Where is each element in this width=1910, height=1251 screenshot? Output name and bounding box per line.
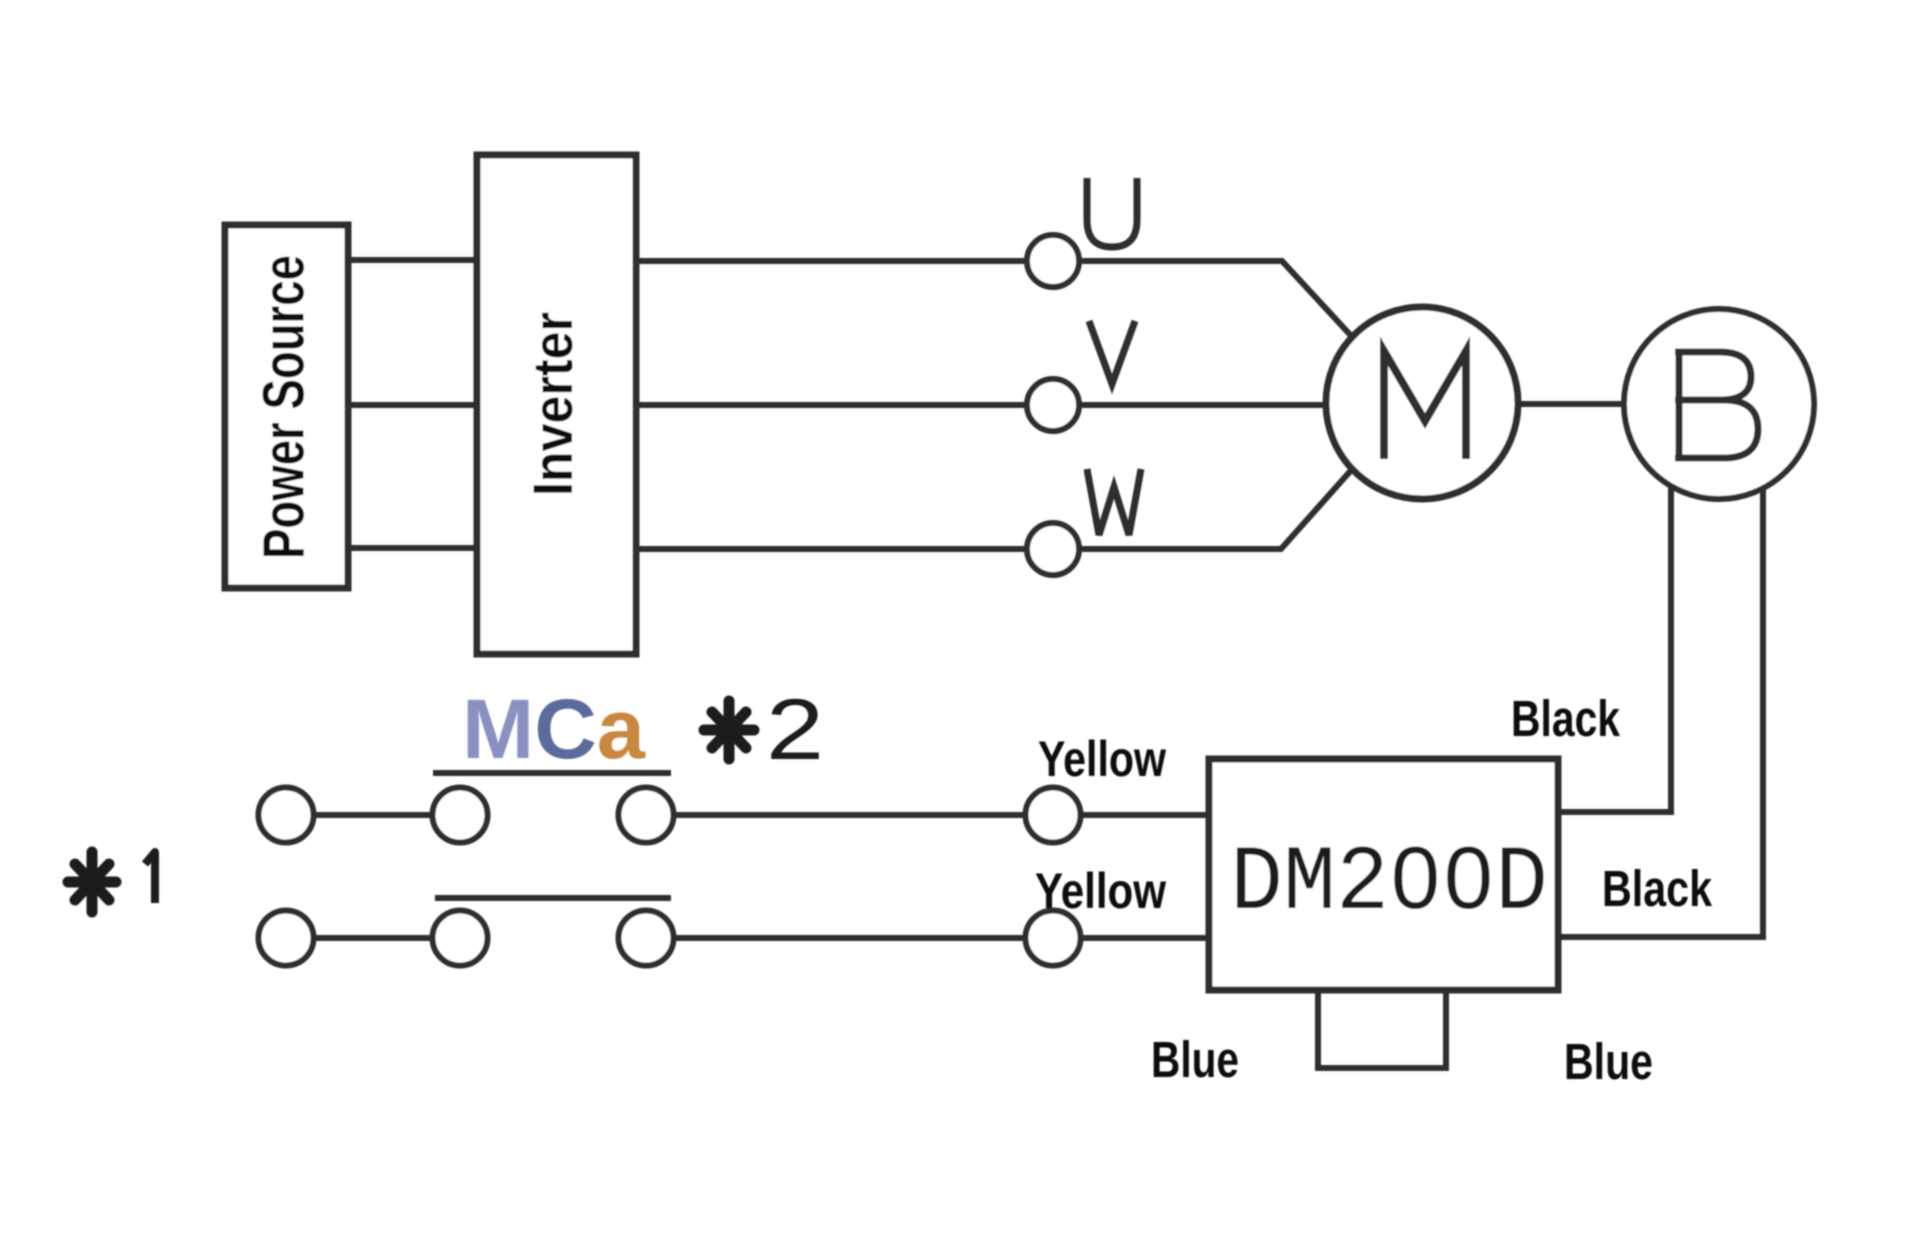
wire yellow2 to DM200D <box>1082 935 1209 941</box>
brake letter B <box>1675 352 1758 458</box>
terminal W <box>1027 523 1079 575</box>
wire U <box>636 258 1026 264</box>
motor M circle <box>1326 307 1518 499</box>
svg-text:Blue: Blue <box>1151 1031 1239 1088</box>
row1 terminal c <box>619 788 674 843</box>
row2 terminal b <box>433 911 488 966</box>
contact bar 1 <box>433 770 671 776</box>
DM200D label <box>1230 831 1548 936</box>
power source box <box>225 225 348 588</box>
svg-text:Black: Black <box>1511 690 1621 747</box>
wire V to motor <box>1080 402 1328 408</box>
DM200D bottom tab <box>1318 990 1446 1068</box>
DM200D box <box>1209 759 1558 990</box>
wire row1 a-b <box>315 812 431 818</box>
svg-text:DM200D: DM200D <box>1230 831 1548 936</box>
ref mark 2 <box>704 682 824 778</box>
contact bar 2 <box>435 895 671 901</box>
brake B circle <box>1624 309 1814 499</box>
label W <box>1087 469 1141 535</box>
wire R phase <box>348 257 477 263</box>
wire row2 to yellow terminal <box>675 935 1023 941</box>
row1 terminal b <box>433 788 488 843</box>
row2 terminal c <box>619 911 674 966</box>
wire U to motor <box>1080 261 1355 340</box>
wire V <box>636 402 1026 408</box>
label U <box>1087 178 1137 247</box>
wire S phase <box>348 402 477 408</box>
wire row2 a-b <box>315 935 431 941</box>
wire W to motor <box>1080 467 1354 549</box>
svg-text:Yellow: Yellow <box>1035 863 1166 919</box>
wire M to B <box>1518 401 1626 407</box>
wire row1 to yellow terminal <box>675 812 1023 818</box>
row2 terminal a <box>259 911 314 966</box>
wire black 2 from B to DM200D <box>1558 489 1763 937</box>
row1 terminal a <box>259 788 314 843</box>
svg-text:Blue: Blue <box>1564 1033 1653 1090</box>
wire yellow1 to DM200D <box>1082 812 1209 818</box>
svg-text:Black: Black <box>1602 860 1713 917</box>
svg-text:Power Source: Power Source <box>251 255 316 559</box>
yellow terminal 2 <box>1026 911 1081 966</box>
ref mark 1 <box>68 852 155 912</box>
svg-text:Yellow: Yellow <box>1038 731 1166 787</box>
yellow terminal 1 <box>1026 788 1081 843</box>
motor letter M <box>1384 351 1466 459</box>
svg-text:Inverter: Inverter <box>521 312 584 496</box>
wire black 1 from B to DM200D <box>1558 487 1671 812</box>
svg-text:MCa: MCa <box>462 682 646 776</box>
wire T phase <box>348 545 477 551</box>
terminal V <box>1027 379 1079 431</box>
inverter box <box>477 155 636 654</box>
terminal U <box>1027 235 1079 287</box>
wire W <box>636 546 1026 552</box>
svg-text:2: 2 <box>766 682 824 778</box>
label V <box>1089 321 1135 384</box>
